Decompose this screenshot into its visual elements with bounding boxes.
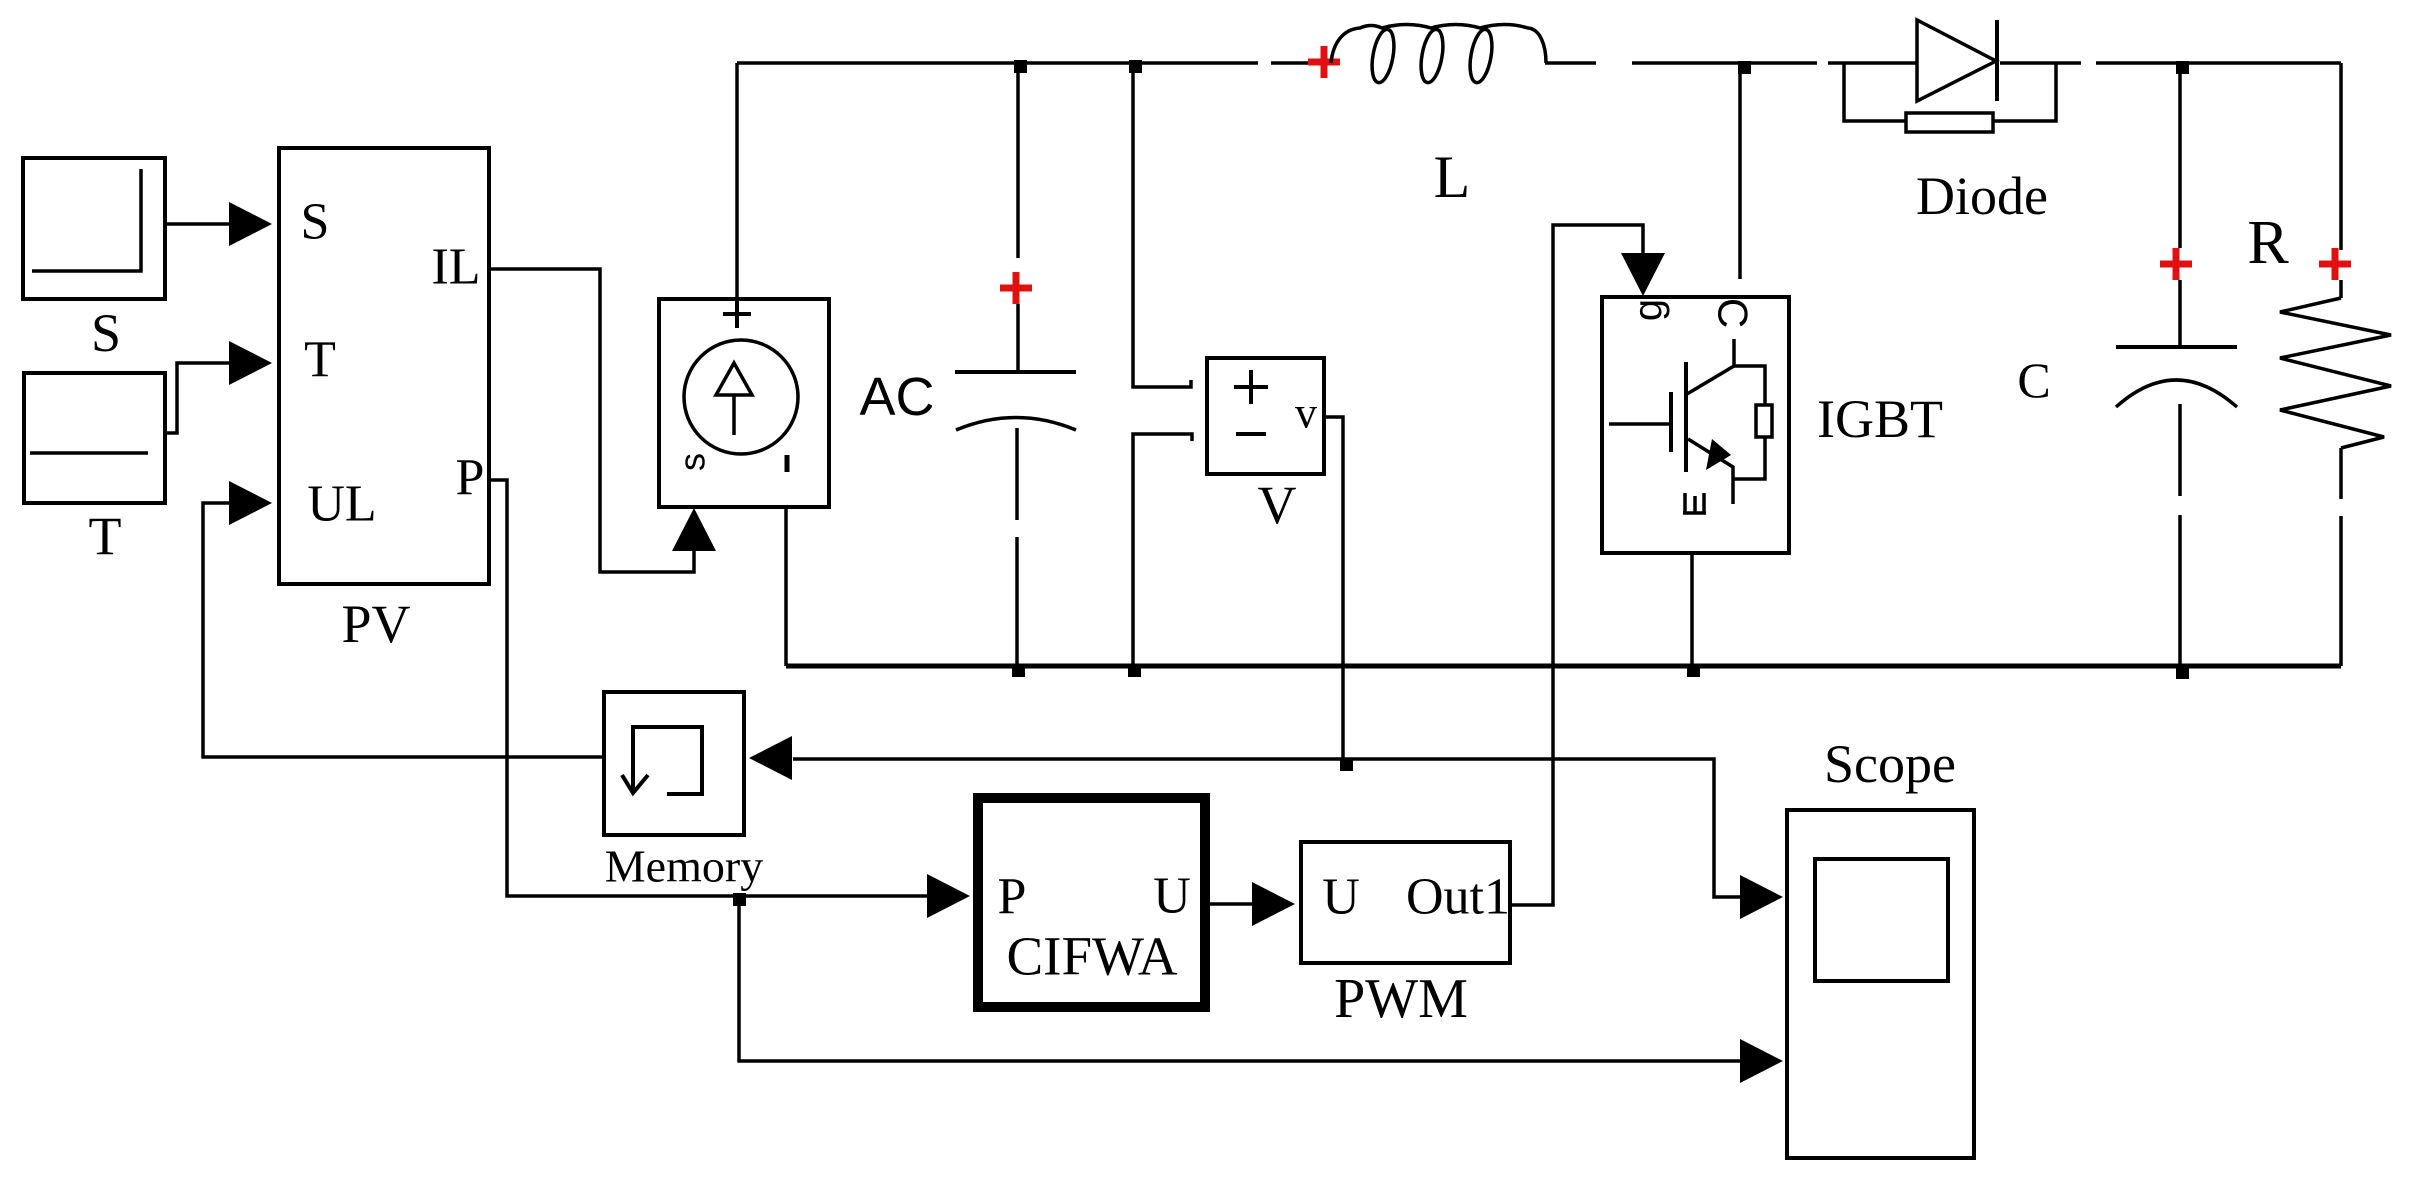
wire PV IL to current source s port bbox=[489, 269, 694, 572]
arrowhead into Scope input 2 bbox=[1740, 1039, 1783, 1083]
Memory block bbox=[604, 692, 744, 835]
wire current source plus to top bus bbox=[735, 63, 739, 299]
IGBT symbol collector path bbox=[1687, 339, 1734, 394]
arrowhead into Scope input 1 bbox=[1740, 875, 1783, 919]
inductor L coil bbox=[1331, 25, 1546, 85]
wire Memory output to PV UL bbox=[203, 503, 604, 757]
junction dot (cap C top tap) bbox=[2176, 61, 2189, 74]
arrowhead into PV UL port bbox=[229, 481, 272, 525]
red plus at AC capacitor bbox=[1000, 272, 1032, 304]
svg-text:S: S bbox=[91, 303, 121, 363]
AC capacitor curved bottom plate bbox=[956, 418, 1076, 431]
svg-text:UL: UL bbox=[307, 476, 376, 533]
top bus segment B (to inductor) bbox=[1271, 61, 1318, 65]
arrowhead into IGBT gate bbox=[1621, 253, 1665, 296]
diode snubber resistor branch bbox=[1844, 64, 2056, 132]
junction dot (V signal split) bbox=[1340, 758, 1353, 771]
svg-text:Scope: Scope bbox=[1824, 734, 1956, 794]
svg-text:PWM: PWM bbox=[1334, 968, 1468, 1030]
svg-text:IGBT: IGBT bbox=[1817, 389, 1943, 449]
CIFWA block bbox=[978, 798, 1205, 1007]
wire PWM Out1 to IGBT gate bbox=[1510, 225, 1643, 905]
capacitor C curved bottom plate bbox=[2116, 380, 2237, 407]
svg-text:IL: IL bbox=[431, 239, 480, 296]
signal wire V to Memory bbox=[793, 757, 1343, 761]
PV block bbox=[279, 148, 489, 584]
svg-text:g: g bbox=[1626, 299, 1670, 321]
voltage measurement block V bbox=[1207, 358, 1324, 474]
svg-text:CIFWA: CIFWA bbox=[1006, 926, 1177, 987]
AC capacitor upper lead bbox=[1016, 304, 1020, 371]
junction dot (AC cap bottom) bbox=[1012, 664, 1025, 677]
V tap upper wire bbox=[1133, 63, 1191, 387]
wire current source minus to bottom bus bbox=[784, 507, 788, 666]
IGBT internal resistor bbox=[1756, 405, 1772, 437]
capacitor C lower lead bbox=[2178, 404, 2182, 496]
controlled current source block bbox=[659, 299, 829, 507]
wire V output down bbox=[1324, 417, 1343, 759]
IGBT symbol gate lead bbox=[1609, 422, 1670, 426]
V tap lower wire bbox=[1133, 434, 1192, 666]
svg-text:T: T bbox=[89, 506, 122, 566]
wire T to PV bbox=[165, 363, 234, 433]
step source block S bbox=[23, 158, 165, 299]
IGBT internal resistor lower lead bbox=[1734, 437, 1765, 479]
IGBT port label E bbox=[1683, 493, 1706, 513]
PWM block bbox=[1301, 842, 1510, 963]
IGBT block bbox=[1602, 297, 1789, 553]
AC capacitor top wire bbox=[1016, 63, 1020, 258]
Scope block bbox=[1787, 810, 1974, 1158]
svg-text:U: U bbox=[1322, 869, 1360, 926]
svg-text:V: V bbox=[1258, 475, 1297, 535]
wire CIFWA to PWM bbox=[1210, 902, 1252, 906]
top bus segment A bbox=[737, 61, 1258, 65]
IGBT symbol emitter path bbox=[1688, 439, 1733, 504]
svg-text:Memory: Memory bbox=[605, 841, 763, 892]
svg-text:L: L bbox=[1434, 144, 1471, 210]
svg-text:T: T bbox=[304, 332, 336, 389]
junction dot (IGBT emitter bottom) bbox=[1687, 664, 1700, 677]
top bus segment G (to R corner) bbox=[2096, 61, 2341, 65]
svg-text:S: S bbox=[301, 194, 330, 251]
svg-text:C: C bbox=[1710, 298, 1757, 328]
wire S to PV bbox=[165, 222, 234, 226]
diode triangle bbox=[1917, 20, 1996, 101]
svg-text:v: v bbox=[1295, 389, 1317, 438]
svg-text:U: U bbox=[1153, 868, 1191, 925]
top bus segment F (after diode) bbox=[2000, 61, 2081, 65]
top bus segment D bbox=[1632, 61, 1817, 65]
junction dot (AC cap top) bbox=[1014, 60, 1027, 73]
resistor R upper stub bbox=[2339, 280, 2343, 298]
diode cathode bar bbox=[1995, 20, 1999, 101]
resistor R branch upper wire bbox=[2339, 63, 2343, 250]
capacitor C top plate bbox=[2116, 345, 2237, 349]
arrowhead into PV T port bbox=[229, 341, 272, 385]
IGBT emitter arrow bbox=[1706, 439, 1731, 470]
red plus at capacitor C bbox=[2160, 248, 2192, 280]
svg-text:s: s bbox=[672, 453, 713, 471]
wire P to Scope lower input bbox=[739, 896, 1740, 1061]
arrowhead into PWM U input bbox=[1252, 882, 1295, 926]
svg-text:C: C bbox=[2017, 352, 2050, 408]
junction dot (P wire split) bbox=[733, 893, 746, 906]
bottom bus bbox=[786, 664, 2341, 669]
junction dot (cap C bottom) bbox=[2176, 666, 2189, 679]
svg-text:R: R bbox=[2247, 209, 2289, 277]
AC capacitor top plate bbox=[955, 370, 1076, 374]
svg-text:PV: PV bbox=[341, 594, 410, 654]
svg-text:Diode: Diode bbox=[1916, 166, 2048, 226]
capacitor C branch upper wire bbox=[2178, 63, 2182, 248]
AC capacitor lower lead (below port gap) bbox=[1015, 537, 1019, 666]
red plus at inductor L bbox=[1308, 46, 1340, 78]
junction dot (collector tap) bbox=[1738, 61, 1751, 74]
svg-text:Out1: Out1 bbox=[1406, 869, 1510, 926]
resistor R lower lead bbox=[2339, 448, 2343, 499]
svg-text:P: P bbox=[456, 450, 485, 507]
wire IGBT emitter to bottom bus bbox=[1690, 553, 1694, 666]
top bus segment E (to diode) bbox=[1828, 61, 1917, 65]
capacitor C upper lead bbox=[2178, 280, 2182, 346]
IGBT symbol gate bar bbox=[1669, 392, 1673, 452]
wire PV P output down bbox=[489, 480, 927, 896]
junction dot (V tap top) bbox=[1129, 60, 1142, 73]
arrowhead into PV S port bbox=[229, 202, 272, 246]
resistor R lower lead below gap bbox=[2339, 516, 2343, 666]
svg-text:AC: AC bbox=[859, 367, 934, 427]
constant source block T bbox=[24, 373, 165, 503]
red plus at resistor R bbox=[2319, 248, 2351, 280]
signal wire V to Scope upper input bbox=[1343, 759, 1740, 897]
IGBT symbol main bar bbox=[1684, 362, 1688, 472]
junction dot (V minus tap bottom) bbox=[1128, 664, 1141, 677]
svg-text:P: P bbox=[998, 869, 1027, 926]
AC capacitor lower lead bbox=[1015, 428, 1019, 520]
arrowhead into Memory input bbox=[749, 736, 792, 780]
capacitor C lower lead below gap bbox=[2178, 515, 2182, 666]
IGBT symbol internal resistor branch bbox=[1734, 366, 1765, 405]
arrowhead into current source s port bbox=[672, 508, 716, 551]
top bus segment C (after inductor) bbox=[1545, 61, 1596, 65]
wire top bus to IGBT collector bbox=[1738, 63, 1742, 279]
resistor R zigzag bbox=[2280, 298, 2391, 448]
arrowhead into CIFWA P input bbox=[927, 874, 970, 918]
